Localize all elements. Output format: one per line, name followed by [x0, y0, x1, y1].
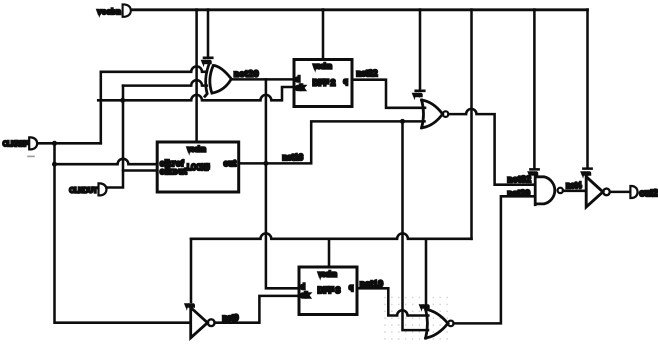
inverter U3	[191, 308, 208, 338]
node net16 junction	[263, 161, 268, 166]
svg-text:q: q	[349, 283, 353, 292]
svg-text:clk: clk	[301, 291, 310, 300]
svg-text:q: q	[344, 77, 348, 86]
block DFF3	[299, 267, 357, 315]
svg-text:CLKOUT: CLKOUT	[69, 186, 98, 195]
wire net22: DFF2 q to NOR U2 in1	[352, 80, 425, 108]
svg-text:DFF 3: DFF 3	[318, 285, 341, 295]
power rail vccbn (top)	[131, 8, 588, 11]
power stub to NOR U2	[416, 10, 425, 91]
wire CLKREF pin to x100.8	[37, 142, 100, 145]
node net16 to NOR2-U6 branch	[400, 119, 405, 124]
node CLKREF to LOCK#	[52, 162, 57, 167]
svg-text:net9: net9	[223, 313, 239, 323]
svg-text:LOCK#: LOCK#	[187, 163, 210, 172]
wire net19: DFF3 q to NOR U6 in1 (hop at x402.5)	[357, 288, 428, 315]
svg-text:CLKREF: CLKREF	[3, 139, 29, 148]
inverter U5	[586, 177, 603, 207]
svg-text:clk: clk	[296, 83, 305, 92]
svg-text:vccbn: vccbn	[319, 271, 337, 278]
wire net16: LOCK# out to NOR U2 in2	[239, 121, 425, 163]
wire: rail down to bottom power rail (x471.5)	[470, 10, 473, 239]
svg-text:net19: net19	[360, 279, 383, 289]
wire out2	[610, 191, 630, 194]
power stub to NOR U6	[425, 239, 428, 303]
pin out2	[630, 186, 637, 198]
nor gate U2	[422, 100, 443, 128]
wire: rail right end down to inverter U5	[583, 10, 591, 169]
svg-text:vccbn: vccbn	[98, 7, 121, 16]
power stub to XOR U1	[204, 10, 212, 58]
pin CLKREF	[29, 137, 37, 149]
pin vccbn	[123, 4, 131, 16]
wire clkout vertical (x123)	[106, 86, 123, 188]
power stub to NAND U4	[530, 10, 538, 170]
wire net32: NOR U2 out to NAND in1 (hop at x471.5)	[448, 109, 535, 185]
xor gate U1	[205, 64, 209, 96]
wire net29: NOR U6 out to NAND in2	[454, 196, 536, 323]
wire net16 branch down to NOR U6 in2	[403, 121, 429, 330]
svg-text:vccbn: vccbn	[188, 147, 206, 154]
svg-text:net16: net16	[283, 152, 304, 162]
nor gate U6	[426, 309, 448, 338]
pin CLKOUT	[99, 183, 107, 195]
wire: rail to DFF2 top	[322, 10, 325, 60]
wire net20: XOR out to DFF2 d	[231, 78, 294, 81]
wire: rail to LOCK# top	[195, 10, 198, 143]
svg-text:out2: out2	[640, 188, 658, 198]
power stub to DFF3 top	[328, 239, 331, 267]
wire net4: NAND out to INV U5	[563, 190, 586, 193]
svg-text:vccn: vccn	[414, 92, 422, 97]
svg-text:out: out	[224, 159, 237, 168]
wire CLKREF to LOCK# clkref (hop at x123)	[55, 159, 158, 164]
block DFF2	[294, 60, 352, 107]
wire CLKREF down left rail to inverter U3 input	[55, 143, 191, 322]
node CLKREF branch	[52, 141, 57, 146]
wire XOR input B (line B) from clkout net vertical	[123, 80, 207, 85]
block LOCK# U0	[157, 142, 239, 192]
svg-text:net32: net32	[508, 174, 532, 184]
wire CLKREF up to XOR input A (line A)	[101, 66, 207, 143]
wire net20/net16 vertical down to DFF3 d	[266, 79, 300, 288]
tick under CLKREF	[28, 155, 34, 157]
node clk net junction	[120, 98, 125, 103]
svg-text:DFF 2: DFF 2	[313, 77, 336, 87]
wire clk line to DFF2 clk (line C, hops at x196.6 and x265.9)	[98, 87, 294, 100]
svg-text:net20: net20	[234, 69, 259, 79]
power stub to inverter U3	[190, 239, 193, 302]
svg-text:net22: net22	[357, 68, 378, 78]
wire clkout to LOCK# clkout	[123, 169, 157, 172]
svg-text:vccbn: vccbn	[314, 63, 332, 70]
wire net9: INV U3 out to DFF3 clk	[215, 296, 299, 323]
svg-text:net4: net4	[566, 180, 582, 190]
power rail bottom (vccbn distribution, hops at x265.9 and x402.5)	[191, 233, 472, 238]
nand gate U4	[535, 176, 555, 205]
